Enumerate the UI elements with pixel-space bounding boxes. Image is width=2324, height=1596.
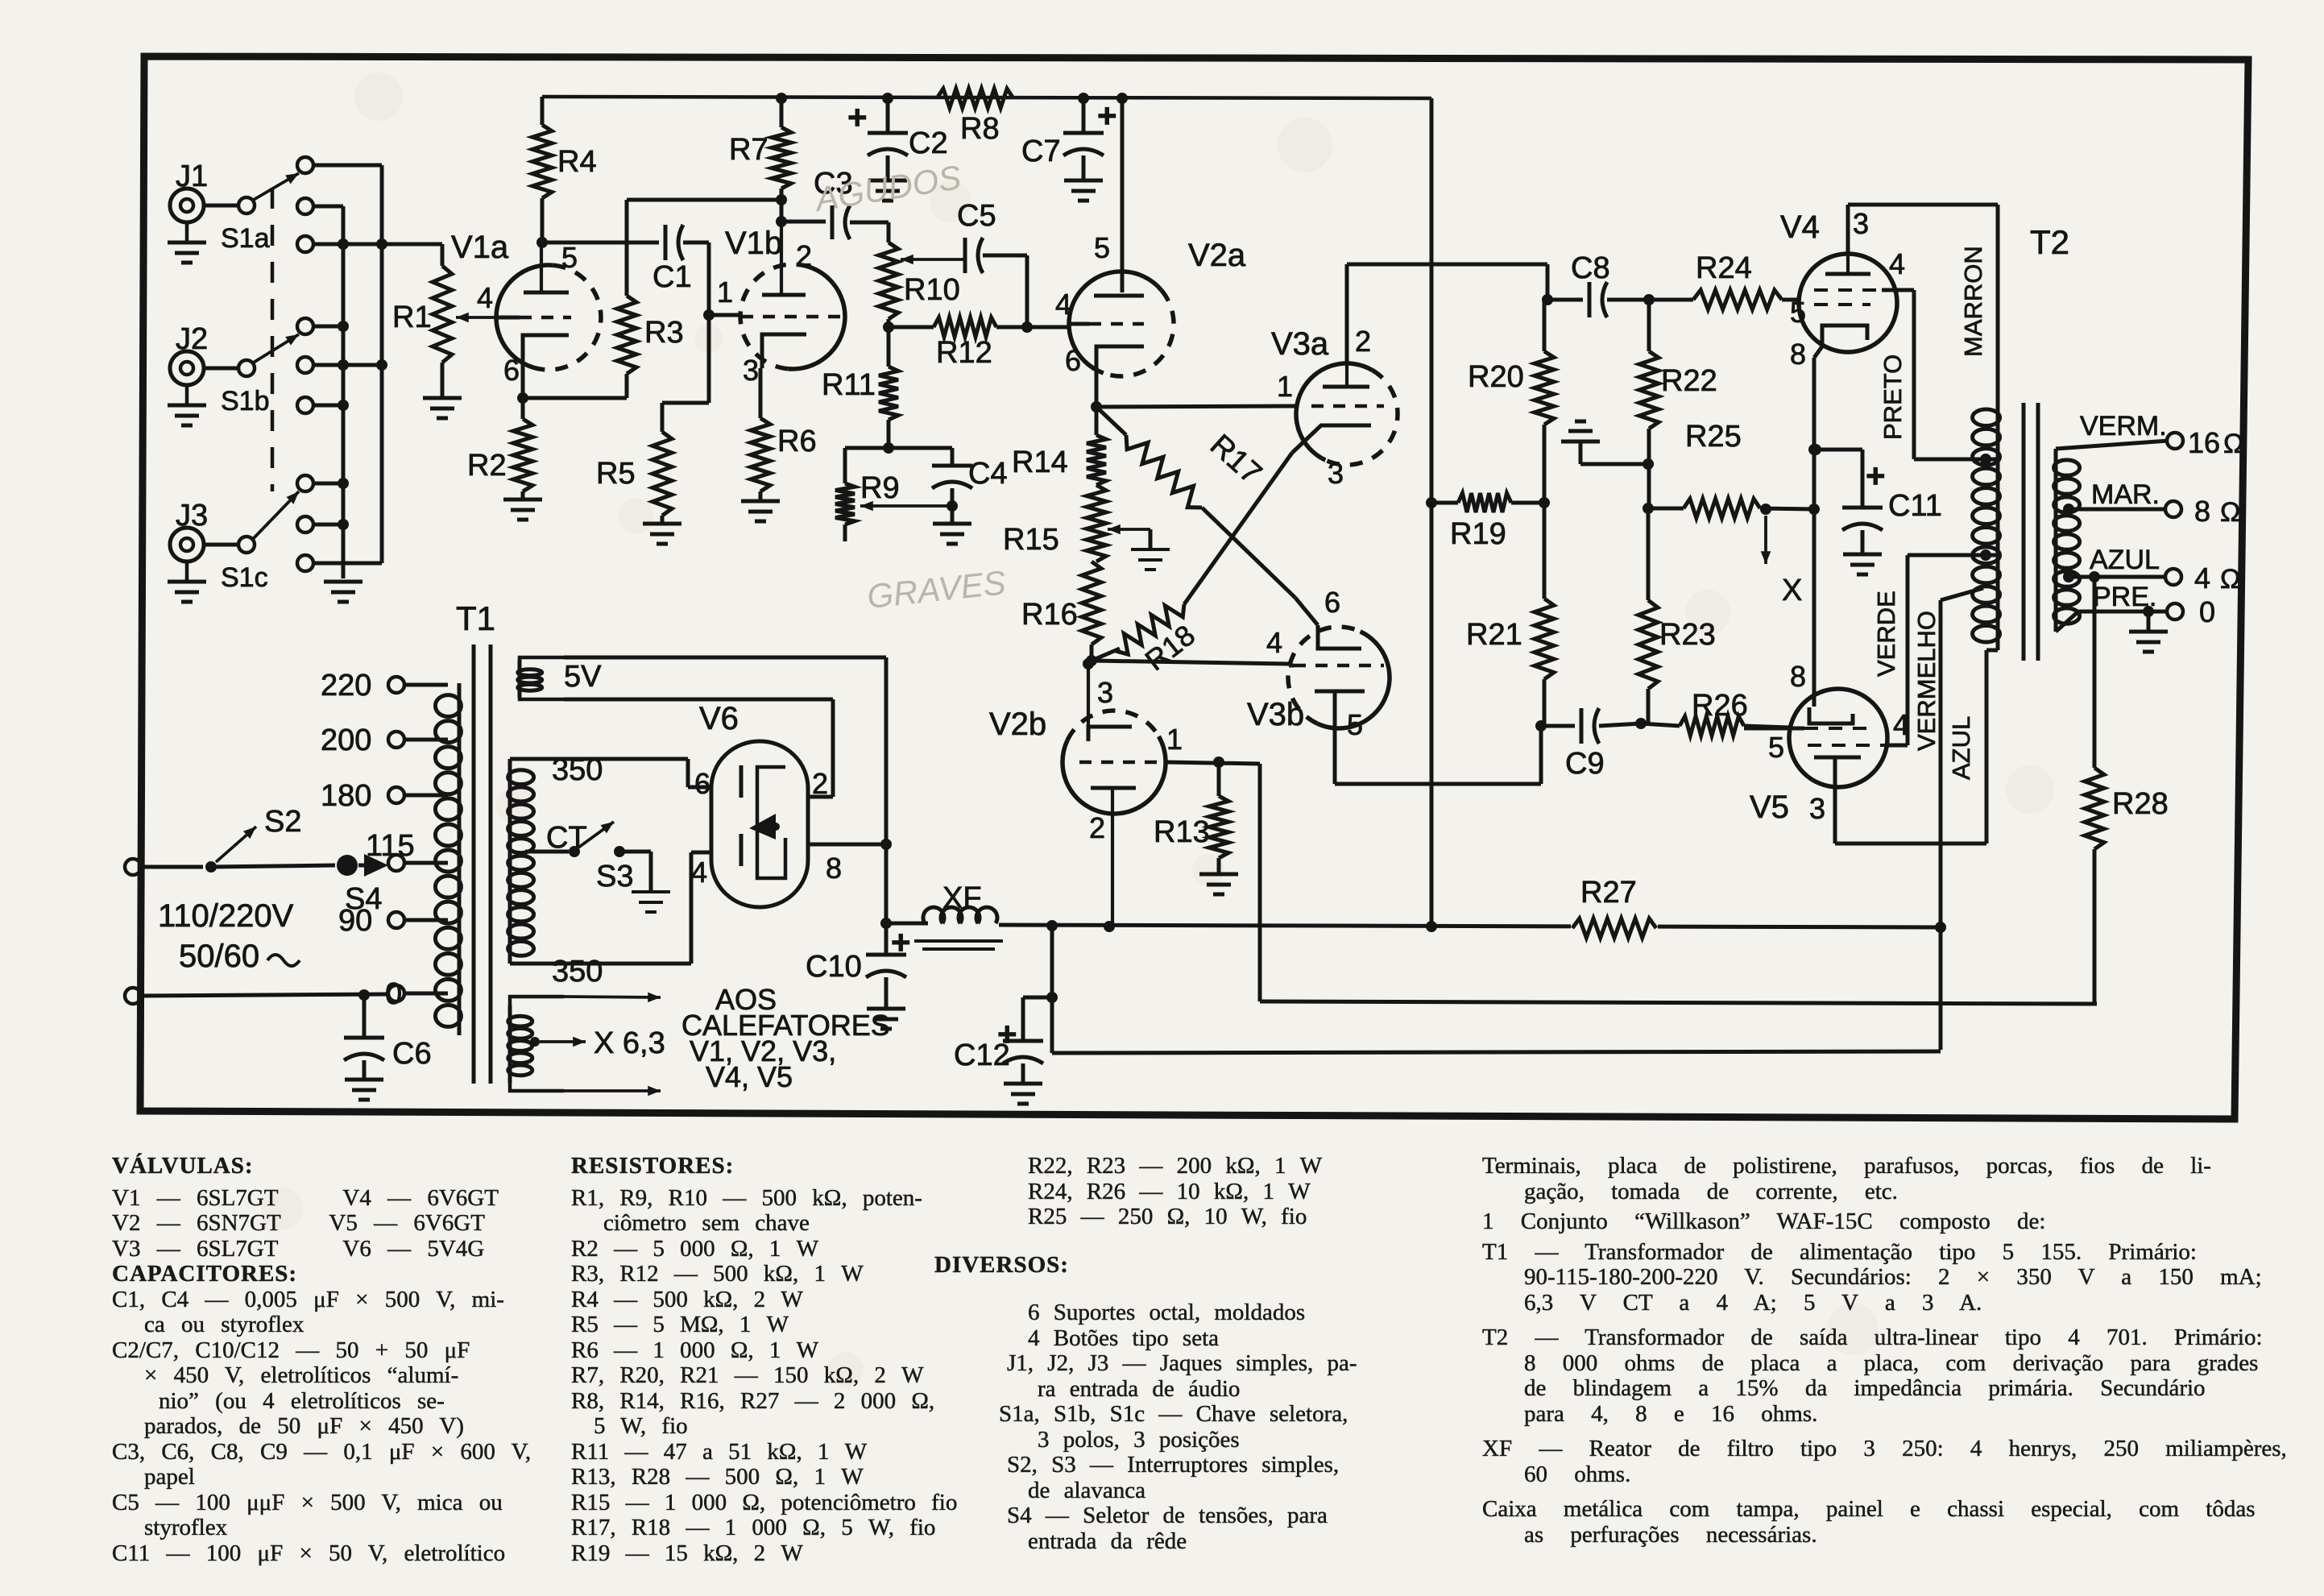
primary taps [388,677,404,693]
svg-text:6: 6 [1065,344,1081,377]
capacitor C4 [951,448,955,466]
switch S12 pole [238,360,255,376]
svg-text:8: 8 [1790,660,1806,693]
resistor R22 [1647,300,1651,351]
svg-text:Ω: Ω [2220,497,2240,528]
svg-text:V2b: V2b [989,707,1046,742]
ground of secondary [2147,611,2151,630]
svg-text:XF: XF [942,881,982,915]
heater arrows [564,997,661,997]
svg-text:C12: C12 [954,1038,1010,1072]
svg-text:Ω: Ω [2223,429,2243,459]
svg-text:2: 2 [796,239,812,272]
svg-text:180: 180 [321,779,371,813]
resistor R19 [1458,493,1511,512]
V2a cathode node [1095,375,1099,407]
secondary tap 16 ohm [2056,441,2169,449]
output transformer T2 primary [1996,398,2000,650]
svg-text:5: 5 [1347,708,1363,741]
V4 cathode [1822,325,1867,346]
svg-text:R27: R27 [1580,876,1637,910]
svg-text:VERM.: VERM. [2080,411,2167,441]
svg-text:V6: V6 [699,701,739,736]
svg-text:J3: J3 [176,499,208,533]
svg-text:R7: R7 [729,133,768,167]
svg-text:5: 5 [561,241,578,274]
svg-text:+: + [891,923,911,961]
jack J2 [170,351,204,385]
resistor R23 [1647,689,1651,723]
svg-text:C10: C10 [806,950,862,984]
wire rail to V2a plate [1116,93,1128,104]
svg-text:220: 220 [321,669,371,703]
svg-text:V3a: V3a [1271,326,1329,362]
supply vertical from rail [1430,98,1434,927]
svg-text:V3b: V3b [1247,697,1304,732]
svg-text:R24: R24 [1696,251,1752,285]
resistor R27 in B+ line [1571,909,1658,944]
V6 internal plates [739,765,744,798]
svg-text:R3: R3 [644,316,684,350]
secondary tap 0 [2056,611,2078,632]
svg-text:R12: R12 [936,336,992,370]
node V1b grid [707,243,711,315]
resistor R21 [1543,503,1547,599]
svg-text:1: 1 [717,276,733,309]
svg-text:3: 3 [1097,676,1113,709]
svg-text:16: 16 [2188,426,2220,459]
svg-text:+: + [847,98,868,136]
tube V1b [788,264,845,369]
svg-text:5V: 5V [564,660,602,694]
svg-text:R28: R28 [2112,787,2169,821]
jack J1 [170,189,204,222]
tube V3a [1296,363,1372,460]
svg-text:C2: C2 [909,126,948,160]
capacitor C7 [1078,93,1089,104]
svg-text:4: 4 [2194,562,2210,595]
svg-text:3: 3 [1809,792,1825,825]
svg-text:AZUL: AZUL [1947,716,1975,780]
svg-text:R11: R11 [822,368,876,402]
capacitor C1 [542,241,659,245]
svg-text:V1a: V1a [451,230,509,265]
AZUL wire to B+ lines [1941,588,1983,600]
tube V1a [496,265,553,370]
switch mechanical link dashed line [271,188,275,491]
svg-text:J1: J1 [176,160,208,193]
resistor R11 [879,367,898,420]
svg-text:R13: R13 [1154,815,1210,849]
capacitor C2 [776,93,787,104]
capacitor C11 [1810,444,1821,455]
svg-text:4: 4 [1266,626,1282,659]
svg-text:6: 6 [503,354,520,387]
selector bus 2 [313,164,382,168]
resistor R5 [707,315,711,403]
svg-text:115: 115 [366,829,415,863]
wire V6 pin4 to 350V winding bottom [691,851,711,855]
jack J3 [170,528,204,562]
svg-text:Ω: Ω [2220,564,2240,595]
V3a plate wire to C8 [1345,264,1349,365]
resistor R4 [536,237,548,248]
svg-text:R5: R5 [596,457,636,491]
rectifier tube V6 [711,741,808,907]
svg-text:S4: S4 [345,882,382,916]
svg-text:S2: S2 [264,805,301,839]
V3b cathode lead pin5 [1333,691,1337,784]
wire V4 plate MARRON [1846,205,1850,255]
resistor R26 [1680,716,1744,736]
scan stains [354,73,403,121]
svg-text:0: 0 [2199,595,2215,628]
B+ line after choke [999,925,1941,927]
resistor R3 [625,200,629,296]
switch S3 on CT [525,850,569,854]
svg-text:6: 6 [694,767,710,800]
svg-text:C5: C5 [957,199,996,233]
tube V3b [1317,632,1390,728]
switch S2 and selector S4 [125,859,141,875]
svg-text:3: 3 [1328,457,1344,490]
V6 pin8 to B+ node [808,843,886,847]
svg-text:VERDE: VERDE [1872,591,1900,677]
svg-text:R4: R4 [557,145,597,179]
svg-text:X 6,3: X 6,3 [594,1026,665,1060]
wire to V3a grid [1096,406,1297,407]
svg-text:V5: V5 [1750,790,1789,825]
resistor R7 [776,194,787,205]
capacitor C12 [1050,926,1054,997]
resistor R24 [1693,290,1782,309]
svg-text:5: 5 [1768,731,1784,764]
ground for selector bus [324,580,362,584]
svg-text:C4: C4 [968,457,1008,491]
filter choke XF [923,907,997,923]
wire V6 pin6 to 350V winding top [688,786,711,790]
wire V4 screen PRETO [1882,288,1914,292]
resistor R13 [1217,762,1221,796]
V3a cathode [1292,425,1371,453]
V4 cathode bus [1814,346,1822,358]
capacitor C6 [362,995,367,1038]
svg-text:X: X [1782,574,1802,607]
svg-text:R23: R23 [1659,618,1716,652]
svg-text:V4: V4 [1780,209,1820,245]
potentiometer R1 [382,243,442,247]
svg-text:C6: C6 [392,1037,432,1071]
resistor R2 [517,392,528,404]
svg-text:5: 5 [1094,231,1110,264]
tube V5 output pentode [1789,689,1887,787]
svg-text:PRE.: PRE. [2093,582,2156,612]
svg-text:S3: S3 [596,860,633,893]
svg-text:V2a: V2a [1188,238,1246,273]
wire R7 to R3 top [627,198,781,202]
V6 filament [757,767,785,878]
svg-text:R16: R16 [1021,598,1078,632]
svg-text:S1a: S1a [221,223,270,254]
capacitor C9 [1541,724,1575,728]
svg-text:VERMELHO: VERMELHO [1912,611,1941,751]
T1 primary winding [458,683,462,1035]
svg-text:5: 5 [1790,296,1806,329]
svg-text:R19: R19 [1450,517,1506,551]
svg-text:8: 8 [1790,338,1806,371]
secondary tap 8 ohm [2063,504,2074,515]
schematic border frame [140,56,2248,1119]
svg-text:MARRON: MARRON [1959,246,1987,357]
V2a cathode [1096,346,1144,375]
V1a cathode [523,335,569,367]
resistor R16 [1082,562,1101,645]
svg-text:V4, V5: V4, V5 [706,1060,793,1093]
V5 grid wire [1744,727,1804,731]
potentiometer R9 and capacitor C4 [845,446,952,450]
svg-text:3: 3 [1853,207,1869,240]
svg-text:200: 200 [321,723,371,757]
tube V4 output pentode [1799,254,1897,352]
svg-text:S1c: S1c [221,562,268,593]
svg-text:+: + [1097,97,1117,135]
selector contacts [297,157,313,173]
switch S11 pole [238,197,255,213]
svg-text:350: 350 [552,753,603,787]
capacitor C10 [880,918,892,929]
svg-text:C8: C8 [1571,251,1610,285]
svg-text:S1b: S1b [221,386,270,417]
svg-text:T2: T2 [2030,223,2069,261]
contact bus wires [313,205,343,209]
capacitor C8 [1547,298,1583,302]
svg-text:350: 350 [552,955,603,989]
tube V2a [1069,272,1162,373]
svg-text:R25: R25 [1685,420,1742,454]
svg-text:1: 1 [1277,370,1293,403]
svg-text:1: 1 [1166,723,1183,756]
svg-text:J2: J2 [176,322,208,356]
svg-text:C7: C7 [1021,135,1061,168]
resistor R25 [1643,503,1654,514]
svg-text:4: 4 [691,856,707,889]
svg-text:R22: R22 [1661,364,1717,398]
resistor R6 [759,368,763,418]
V1b cathode [762,334,806,368]
resistor R18 diagonal [1092,649,1120,661]
svg-text:3: 3 [743,354,759,387]
tube V2b [1063,736,1166,814]
svg-text:AZUL: AZUL [2090,545,2160,575]
neutral input line [125,988,141,1004]
wire R16 node to V3b grid [1092,661,1289,664]
svg-text:R6: R6 [777,425,817,458]
svg-text:R2: R2 [467,449,507,483]
svg-text:C9: C9 [1565,747,1605,781]
svg-text:8: 8 [826,852,842,885]
capacitor C3 [781,220,826,224]
svg-text:2: 2 [1355,325,1371,358]
arrow to X [1760,504,1771,515]
5V wiring to V6 [564,656,886,660]
svg-text:6: 6 [1324,586,1340,619]
resistor R20 [1543,300,1547,351]
svg-text:R10: R10 [904,273,960,307]
svg-text:R26: R26 [1692,689,1748,723]
B+ line to AZUL [1052,1051,1941,1053]
svg-text:R9: R9 [860,471,900,505]
wire cathode V1a to R3 [523,396,627,400]
svg-text:110/220V: 110/220V [158,898,294,934]
secondary tap 4 ohm [2063,571,2074,582]
svg-text:4: 4 [477,281,493,314]
T1 high-voltage winding 350-0-350 [508,759,512,964]
svg-text:2: 2 [1089,811,1105,844]
V3b cathode line to R21 [1335,782,1541,786]
V5 cathode to bus [1812,694,1817,707]
resistor R8 [937,89,1013,108]
5V heater winding [520,657,564,699]
V5 plate VERMELHO wire [1833,757,1837,844]
T1 core [472,645,476,1084]
capacitor C5 with wiper arrow to R10 [901,258,963,261]
svg-text:R8: R8 [960,112,1000,146]
svg-text:50/60: 50/60 [179,939,259,974]
potentiometer R10 [879,243,898,319]
svg-text:MAR.: MAR. [2091,479,2160,510]
feedback line R28 to R13 node [1260,1001,2097,1004]
R1 wiper arrow [456,316,495,319]
V5 screen VERDE wire [1887,744,1908,748]
svg-text:R15: R15 [1003,523,1059,557]
svg-text:V1b: V1b [725,226,782,261]
switch S13 pole [238,537,255,553]
svg-text:R21: R21 [1466,618,1522,652]
svg-text:R1: R1 [392,301,432,334]
svg-text:R14: R14 [1012,446,1068,479]
svg-text:C1: C1 [652,260,692,294]
potentiometer R15 [1087,485,1106,562]
svg-text:PRETO: PRETO [1879,354,1907,440]
svg-text:R20: R20 [1468,360,1524,394]
V2b grid node and R13 [1213,757,1224,768]
ground stub near R22 [1561,440,1600,444]
T2 core [2022,403,2026,661]
svg-text:C11: C11 [1888,489,1942,523]
resistor R12 [887,319,891,327]
svg-text:4: 4 [1889,247,1905,280]
top supply rail [542,97,1431,98]
resistor R17 diagonal [1096,407,1126,435]
svg-text:8: 8 [2194,495,2210,528]
svg-text:+: + [1866,457,1886,495]
resistor R14 [1095,407,1099,435]
heater winding 6.3V [510,997,564,1091]
T2 secondary [2054,449,2058,632]
svg-text:T1: T1 [456,599,495,637]
resistor R28 [2093,577,2097,768]
